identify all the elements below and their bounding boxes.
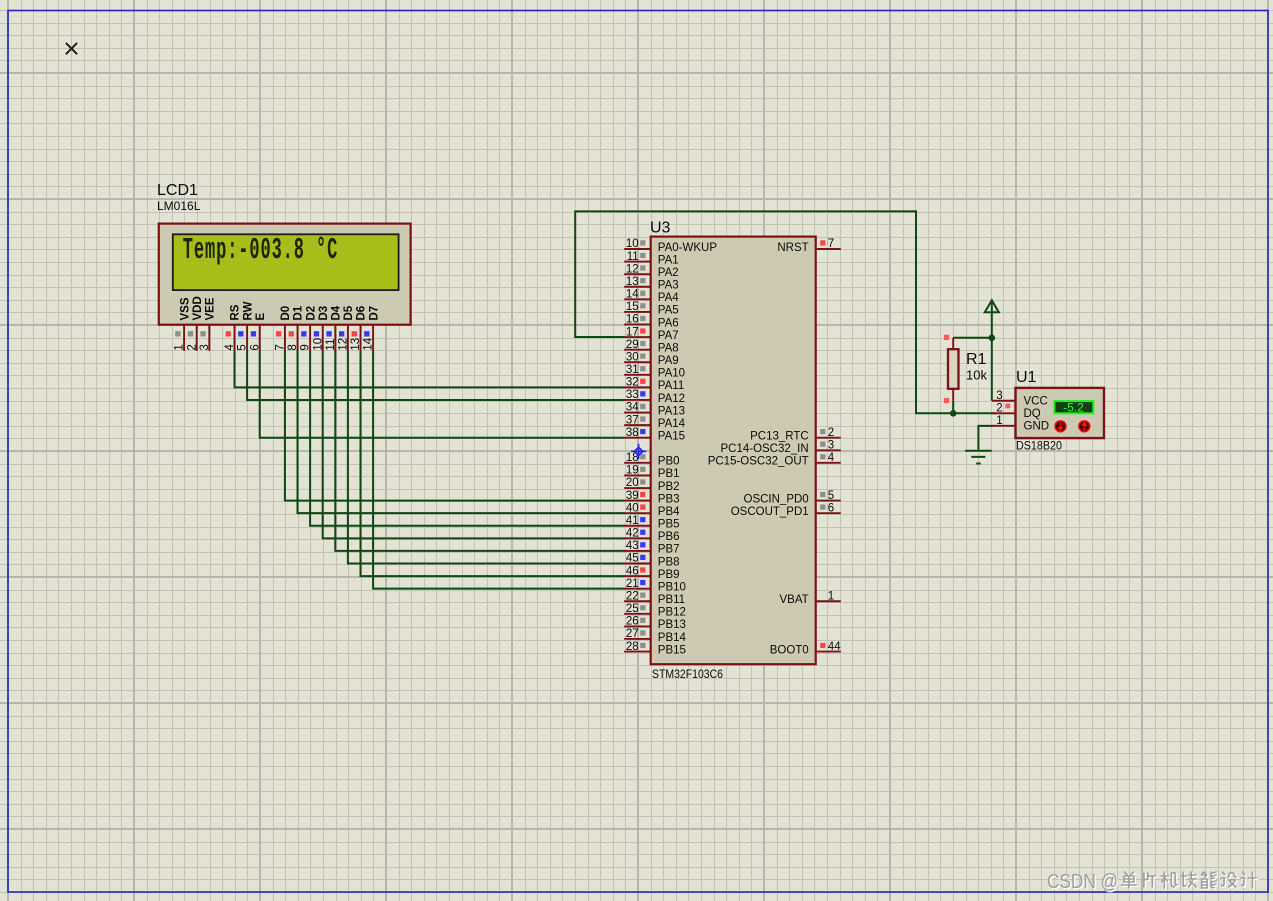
U1 pin 3 (VCC)	[992, 390, 1048, 408]
svg-text:9: 9	[300, 344, 312, 350]
watermark CSDN	[1048, 871, 1119, 894]
U1 up button	[1078, 420, 1090, 432]
svg-text:PA2: PA2	[658, 267, 679, 279]
svg-text:13: 13	[350, 338, 362, 351]
U3 pin 30 (PA9)	[624, 351, 678, 367]
svg-text:PB0: PB0	[658, 456, 680, 468]
LCD1 pin 8 (D1)	[287, 305, 305, 351]
LCD1 pin 2 (VDD)	[186, 296, 204, 351]
svg-text:33: 33	[626, 389, 639, 401]
svg-text:7: 7	[828, 238, 834, 250]
svg-text:VDD: VDD	[192, 296, 204, 320]
svg-text:PB5: PB5	[658, 519, 680, 531]
svg-text:RW: RW	[242, 301, 254, 320]
U3 pin 27 (PB14)	[624, 628, 686, 644]
junction dot at VCC node	[989, 335, 996, 342]
svg-text:39: 39	[626, 490, 639, 502]
svg-text:1: 1	[996, 415, 1002, 427]
U3 pin 1 (VBAT)	[780, 590, 841, 606]
svg-text:OSCIN_PD0: OSCIN_PD0	[744, 493, 809, 505]
svg-text:PA15: PA15	[658, 431, 685, 443]
svg-text:DQ: DQ	[1024, 408, 1041, 420]
origin marker X	[66, 43, 77, 54]
U3 origin crosshair	[631, 444, 646, 459]
svg-text:PB14: PB14	[658, 632, 687, 644]
wire R1 bottom to DQ node	[952, 401, 954, 414]
svg-text:4: 4	[224, 344, 236, 351]
U3 pin 46 (PB9)	[624, 565, 679, 581]
power symbol (VCC arrow)	[985, 300, 999, 312]
U3 pin 21 (PB10)	[624, 578, 686, 594]
svg-text:PA13: PA13	[658, 405, 685, 417]
svg-text:BOOT0: BOOT0	[770, 644, 809, 656]
svg-text:U3: U3	[650, 220, 671, 237]
svg-text:26: 26	[626, 616, 639, 628]
LCD1 pin 5 (RW)	[237, 301, 255, 350]
svg-text:PA1: PA1	[658, 254, 679, 266]
U1 pin 1 (GND)	[992, 415, 1049, 433]
wire RW-PA12	[247, 351, 624, 400]
svg-text:PB1: PB1	[658, 468, 680, 480]
wire RS-PA11	[235, 351, 625, 388]
U3 pin 39 (PB3)	[624, 490, 679, 506]
svg-text:3: 3	[996, 390, 1002, 402]
U3 pin 43 (PB7)	[624, 540, 679, 556]
svg-text:PB2: PB2	[658, 481, 680, 493]
svg-text:PA11: PA11	[658, 380, 684, 392]
wire E-PA15	[260, 351, 625, 438]
U1 pin 2 (DQ)	[992, 403, 1041, 421]
U3 pin 15 (PA5)	[624, 301, 678, 317]
svg-text:10: 10	[312, 338, 324, 351]
svg-text:OSCOUT_PD1: OSCOUT_PD1	[731, 506, 809, 518]
svg-text:10k: 10k	[966, 368, 987, 383]
svg-text:PA8: PA8	[658, 342, 679, 354]
LCD1 pin 14 (D7)	[363, 306, 381, 351]
svg-text:U1: U1	[1016, 369, 1037, 386]
U3 pin 20 (PB2)	[624, 477, 679, 493]
svg-text:PA10: PA10	[658, 368, 685, 380]
wire D4-PB7	[335, 351, 624, 551]
svg-text:43: 43	[626, 540, 639, 552]
U3 pin 22 (PB11)	[624, 590, 685, 606]
U3 pin 19 (PB1)	[624, 465, 679, 481]
svg-text:PB11: PB11	[658, 594, 685, 606]
svg-text:PA0-WKUP: PA0-WKUP	[658, 242, 718, 254]
svg-text:PA7: PA7	[658, 330, 679, 342]
U3 pin 5 (OSCIN_PD0)	[744, 490, 841, 506]
svg-text:VSS: VSS	[179, 297, 191, 320]
svg-text:30: 30	[626, 351, 639, 363]
svg-text:22: 22	[626, 590, 639, 602]
svg-text:2: 2	[186, 344, 198, 350]
svg-text:27: 27	[626, 628, 639, 640]
svg-text:28: 28	[626, 641, 639, 653]
U3 pin 37 (PA14)	[624, 414, 685, 430]
U3 pin 31 (PA10)	[624, 364, 685, 380]
U3 pin 32 (PA11)	[624, 377, 684, 393]
U1 down button	[1054, 420, 1066, 432]
U3 pin 6 (OSCOUT_PD1)	[731, 502, 841, 518]
svg-text:25: 25	[626, 603, 639, 615]
svg-text:1: 1	[828, 590, 834, 602]
svg-text:PC15-OSC32_OUT: PC15-OSC32_OUT	[708, 456, 809, 468]
svg-text:15: 15	[626, 301, 639, 313]
svg-text:4: 4	[828, 452, 835, 464]
wire D1-PB4	[298, 351, 625, 514]
svg-text:44: 44	[828, 641, 841, 653]
svg-text:46: 46	[626, 565, 639, 577]
LCD1 pin 3 (VEE)	[199, 297, 217, 351]
svg-text:13: 13	[626, 276, 639, 288]
svg-text:D1: D1	[293, 305, 305, 320]
U3 pin 10 (PA0-WKUP)	[624, 238, 717, 254]
svg-text:D3: D3	[318, 306, 330, 321]
svg-text:3: 3	[199, 344, 211, 350]
U3 pin 16 (PA6)	[624, 314, 678, 330]
svg-text:PA3: PA3	[658, 280, 679, 292]
wire D6-PB9	[361, 351, 625, 577]
U3 pin 45 (PB8)	[624, 553, 679, 569]
junction dot at DQ node	[950, 410, 957, 417]
U3 pin 29 (PA8)	[624, 339, 678, 355]
U3 pin 2 (PC13_RTC)	[750, 427, 841, 443]
LCD1 pin 12 (D5)	[338, 305, 356, 351]
svg-text:3: 3	[828, 439, 834, 451]
LCD1 pin 9 (D2)	[300, 306, 318, 351]
wire PA7 to DS18B20 DQ (loop)	[575, 211, 996, 413]
svg-text:PC14-OSC32_IN: PC14-OSC32_IN	[720, 443, 808, 455]
svg-text:D4: D4	[331, 305, 343, 320]
U3 pin 3 (PC14-OSC32_IN)	[720, 439, 840, 455]
svg-text:PB8: PB8	[658, 556, 680, 568]
U3 pin 28 (PB15)	[624, 641, 686, 657]
svg-text:14: 14	[626, 289, 639, 301]
svg-text:10: 10	[626, 238, 639, 250]
svg-text:PA5: PA5	[658, 305, 679, 317]
U3 pin 44 (BOOT0)	[770, 641, 841, 657]
U3 pin 38 (PA15)	[624, 427, 685, 443]
svg-text:7: 7	[275, 344, 287, 350]
svg-text:31: 31	[626, 364, 639, 376]
svg-text:16: 16	[626, 314, 639, 326]
LCD1 screen	[173, 234, 399, 290]
LCD1 pin 4 (RS)	[224, 304, 242, 351]
svg-text:CSDN @: CSDN @	[1047, 870, 1118, 893]
svg-text:PA4: PA4	[658, 292, 679, 304]
svg-text:PC13_RTC: PC13_RTC	[750, 431, 809, 443]
LCD1 pin 1 (VSS)	[174, 297, 192, 351]
svg-text:45: 45	[626, 553, 639, 565]
svg-text:D0: D0	[280, 306, 292, 321]
U3 pin 12 (PA2)	[624, 263, 678, 279]
svg-text:12: 12	[338, 338, 350, 351]
wire VCC rail vertical	[991, 300, 993, 401]
U3 pin 41 (PB5)	[624, 515, 679, 531]
watermark CJK text	[1123, 873, 1138, 889]
ground symbol	[965, 451, 992, 464]
wire D3-PB6	[323, 351, 625, 539]
svg-text:5: 5	[237, 344, 249, 350]
svg-text:D2: D2	[305, 306, 317, 321]
svg-text:PB7: PB7	[658, 544, 680, 556]
svg-text:41: 41	[626, 515, 639, 527]
svg-text:NRST: NRST	[777, 242, 808, 254]
svg-text:20: 20	[626, 477, 639, 489]
svg-text:6: 6	[828, 502, 834, 514]
svg-text:PB4: PB4	[658, 506, 680, 518]
LCD1 pin 13 (D6)	[350, 306, 368, 351]
svg-text:RS: RS	[230, 304, 242, 320]
LCD1 pin 11 (D4)	[325, 305, 343, 351]
U3 pin 18 (PB0)	[624, 452, 679, 468]
svg-text:PB9: PB9	[658, 569, 680, 581]
svg-text:LCD1: LCD1	[157, 182, 198, 199]
U3 pin 7 (NRST)	[777, 238, 840, 254]
svg-text:LM016L: LM016L	[157, 199, 201, 213]
U3 pin 11 (PA1)	[624, 251, 678, 267]
wire R1 top to VCC node	[953, 337, 992, 339]
svg-text:19: 19	[626, 465, 639, 477]
wire D7-PB10	[373, 351, 624, 589]
svg-text:PB13: PB13	[658, 619, 686, 631]
U3 pin 13 (PA3)	[624, 276, 678, 292]
svg-text:PB15: PB15	[658, 644, 686, 656]
svg-text:14: 14	[363, 337, 375, 350]
U1 temperature display	[1054, 400, 1093, 414]
svg-text:GND: GND	[1024, 421, 1050, 433]
svg-text:D5: D5	[343, 305, 355, 320]
wire D2-PB5	[310, 351, 624, 526]
LCD1 body	[159, 224, 411, 325]
svg-text:17: 17	[626, 326, 639, 338]
svg-text:PA9: PA9	[658, 355, 679, 367]
svg-text:D7: D7	[368, 306, 380, 321]
U3 pin 42 (PB6)	[624, 528, 679, 544]
U3 pin 33 (PA12)	[624, 389, 685, 405]
svg-text:29: 29	[626, 339, 639, 351]
svg-text:42: 42	[626, 528, 639, 540]
svg-text:8: 8	[287, 344, 299, 350]
svg-text:11: 11	[325, 339, 337, 351]
wire D5-PB8	[348, 351, 625, 564]
svg-text:1: 1	[174, 344, 186, 350]
svg-text:11: 11	[627, 251, 639, 263]
svg-text:VEE: VEE	[205, 297, 217, 320]
U3 pin 34 (PA13)	[624, 402, 685, 418]
svg-text:21: 21	[626, 578, 639, 590]
svg-text:32: 32	[626, 377, 639, 389]
U1 body	[1016, 388, 1105, 438]
LCD1 pin 7 (D0)	[275, 306, 293, 351]
svg-text:34: 34	[626, 402, 639, 414]
U3 pin 4 (PC15-OSC32_OUT)	[708, 452, 841, 468]
svg-text:Temp:-003.8 °C: Temp:-003.8 °C	[183, 233, 338, 268]
svg-text:2: 2	[828, 427, 834, 439]
svg-text:PB10: PB10	[658, 581, 686, 593]
svg-text:VCC: VCC	[1024, 396, 1048, 408]
LCD1 pin 10 (D3)	[312, 306, 330, 351]
svg-text:E: E	[255, 313, 267, 321]
svg-text:VBAT: VBAT	[780, 594, 809, 606]
U3 pin 26 (PB13)	[624, 616, 686, 632]
U3 pin 17 (PA7)	[624, 326, 678, 342]
svg-text:40: 40	[626, 502, 639, 514]
svg-text:STM32F103C6: STM32F103C6	[652, 667, 723, 681]
svg-text:PB12: PB12	[658, 607, 686, 619]
U1 DQ state square	[1005, 404, 1010, 409]
svg-text:D6: D6	[356, 306, 368, 321]
wire D0-PB3	[285, 351, 625, 501]
resistor R1	[944, 335, 959, 403]
LCD1 pin 6 (E)	[249, 313, 267, 351]
U3 pin 40 (PB4)	[624, 502, 680, 518]
svg-text:PB6: PB6	[658, 531, 680, 543]
svg-text:R1: R1	[966, 351, 987, 368]
svg-text:38: 38	[626, 427, 639, 439]
svg-text:PB3: PB3	[658, 493, 680, 505]
svg-text:PA14: PA14	[658, 418, 686, 430]
svg-text:37: 37	[626, 414, 639, 426]
wire DS18B20 GND pin to ground	[978, 426, 993, 450]
svg-text:PA12: PA12	[658, 393, 685, 405]
svg-text:2: 2	[996, 403, 1002, 415]
svg-text:5: 5	[828, 490, 834, 502]
U3 body	[651, 237, 816, 665]
svg-text:12: 12	[626, 263, 639, 275]
svg-text:PA6: PA6	[658, 317, 679, 329]
U3 pin 14 (PA4)	[624, 289, 679, 305]
svg-text:DS18B20: DS18B20	[1016, 439, 1062, 453]
svg-text:-5.2: -5.2	[1063, 400, 1084, 414]
U3 pin 25 (PB12)	[624, 603, 686, 619]
svg-text:6: 6	[249, 344, 261, 350]
